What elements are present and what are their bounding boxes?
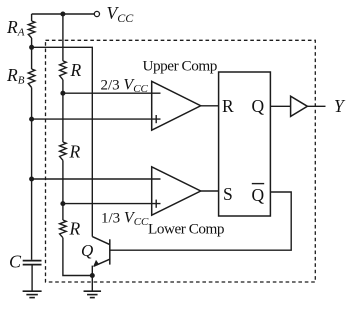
svg-text:Q: Q: [252, 96, 265, 116]
wire Qbar feedback to Q base: [110, 192, 291, 250]
svg-text:Q: Q: [252, 185, 265, 205]
node RA/RB junction: [29, 45, 34, 50]
svg-text:R: R: [70, 60, 82, 80]
wire R3 bottom to emitter junction: [63, 238, 92, 276]
node Vcc top junction: [60, 12, 65, 17]
wire buffer to Y: [307, 105, 325, 107]
svg-text:Q: Q: [81, 241, 93, 260]
ground (capacitor): [23, 291, 42, 297]
op-amp lower comparator: [152, 167, 201, 215]
wire junction to ground: [91, 276, 93, 292]
wire R1 to R2: [62, 80, 64, 142]
node trigger tap: [29, 177, 34, 182]
wire RA top lead: [31, 14, 33, 21]
wire Vcc to divider R1: [62, 14, 64, 61]
svg-text:Upper Comp: Upper Comp: [143, 58, 217, 75]
transistor Q: [92, 237, 110, 267]
resistor R3 (divider bottom): [60, 220, 67, 238]
Vcc terminal (open circle): [94, 11, 99, 16]
lower comp plus sign: [155, 200, 157, 208]
svg-text:R: R: [222, 96, 234, 116]
svg-text:R: R: [69, 142, 81, 162]
upper comp plus sign: [155, 115, 157, 123]
svg-text:Lower Comp: Lower Comp: [148, 221, 224, 238]
wire lower comp output to S input: [201, 190, 219, 192]
wire emitter to junction: [91, 266, 93, 276]
resistor RB: [28, 69, 35, 88]
SR latch U1: [219, 72, 271, 216]
wire capacitor to ground: [31, 265, 33, 292]
resistor R2 (divider middle): [60, 142, 67, 160]
node emitter/ground junction: [90, 273, 95, 278]
svg-text:R: R: [69, 219, 81, 239]
wire upper comp output to R input: [201, 105, 219, 107]
wire trigger to lower comp inverting input: [32, 178, 161, 180]
wire 1/3 Vcc to lower comp non-inverting input: [63, 203, 161, 205]
node threshold tap: [29, 117, 34, 122]
ground (emitter): [84, 291, 102, 297]
wire Q to output buffer: [270, 105, 290, 107]
node 1/3 Vcc: [60, 201, 65, 206]
output buffer: [291, 96, 308, 116]
wire 2/3 Vcc to upper comp inverting input: [63, 92, 161, 94]
node 2/3 Vcc: [60, 91, 65, 96]
wire threshold to upper comp non-inverting input: [32, 118, 161, 120]
capacitor C: [23, 261, 42, 265]
wire R2 to R3: [62, 160, 64, 220]
resistor R1 (divider top): [60, 61, 67, 80]
wire discharge rail: [32, 47, 93, 236]
wire RA-RB node segment: [31, 38, 33, 69]
wire Vcc top rail: [32, 13, 95, 15]
wire left rail down to capacitor: [31, 88, 33, 260]
dashed IC boundary box: [46, 40, 316, 282]
svg-text:S: S: [223, 184, 233, 204]
op-amp upper comparator: [152, 81, 201, 130]
svg-text:C: C: [9, 252, 22, 272]
resistor RA: [28, 21, 35, 38]
